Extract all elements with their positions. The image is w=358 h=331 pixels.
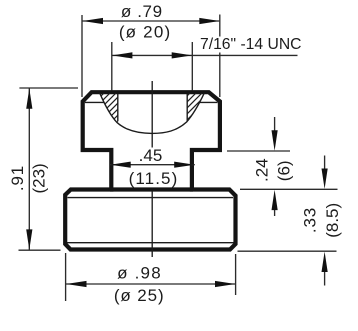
dimension dia .79: dimension line <box>83 20 220 22</box>
svg-text:.33: .33 <box>301 207 320 233</box>
thread callout 7/16: dimension line and leader shelf <box>112 54 298 56</box>
thread minor-diameter line left <box>117 94 119 121</box>
dimension dia .79: arrow left <box>83 18 103 24</box>
top face line left <box>85 101 104 103</box>
dimension dia .98: dimension line <box>66 283 235 285</box>
svg-text:ø .79: ø .79 <box>121 2 163 21</box>
svg-text:(6): (6) <box>275 160 294 181</box>
dimension dia .79: arrow right <box>199 18 219 24</box>
dimension .91: arrow up <box>26 88 32 108</box>
counterbore dish curve <box>100 93 204 133</box>
svg-text:.45: .45 <box>139 146 163 165</box>
dimension .91: dimension line <box>28 88 30 249</box>
dimension .33: reference line bottom <box>238 250 337 252</box>
dimension .24: reference line top <box>227 150 290 152</box>
dimension dia .98: extension line left <box>65 253 67 301</box>
svg-text:7/16" -14 UNC: 7/16" -14 UNC <box>200 36 301 53</box>
top face line right <box>200 101 218 103</box>
dimension .45: arrow left <box>110 162 130 168</box>
dimension dia .98: arrow right <box>215 281 235 287</box>
svg-text:(8.5): (8.5) <box>323 203 342 238</box>
dimension .24: arrow down <box>274 117 276 133</box>
dimension .24: arrow up <box>274 208 276 216</box>
svg-text:ø .98: ø .98 <box>117 264 162 283</box>
vertical centerline (lower segment) <box>151 191 153 257</box>
vertical centerline (upper segment) <box>151 81 153 148</box>
dimension .45: arrow right <box>174 162 194 168</box>
dimension .91: reference line top <box>19 87 78 89</box>
dimension .45: dimension line <box>110 164 195 166</box>
svg-text:.24: .24 <box>253 158 272 182</box>
thread callout 7/16: extension line left <box>111 42 113 91</box>
dimension .91: arrow down <box>26 229 32 249</box>
svg-text:(23): (23) <box>30 163 49 193</box>
thread hatch left <box>75 90 149 122</box>
thread callout 7/16: arrow left <box>112 52 132 58</box>
svg-text:.91: .91 <box>8 165 27 191</box>
dimension .24: reference line bottom (shared) <box>240 188 338 190</box>
dimension .33: arrow up <box>324 272 326 286</box>
part outline (T-nut cross-section, thick) <box>65 92 235 249</box>
svg-text:(11.5): (11.5) <box>129 169 179 188</box>
dimension .33: arrow down <box>324 156 326 171</box>
dimension dia .98: arrow left <box>66 281 86 287</box>
dimension dia .79: extension line left <box>81 15 83 97</box>
thread minor-diameter line right <box>186 94 188 121</box>
dimension dia .98: extension line right <box>235 254 237 295</box>
thread callout 7/16: extension line right <box>191 42 193 91</box>
thread hatch right <box>161 90 223 122</box>
thread callout 7/16: arrow right <box>172 52 192 58</box>
base top edge across neck <box>110 187 193 191</box>
base chamfer ring top <box>68 197 234 199</box>
base chamfer ring bottom <box>67 242 234 244</box>
dimension dia .79: extension line right (above text) <box>219 15 221 37</box>
dimension dia .79: extension line right (below text) <box>219 53 221 98</box>
svg-text:(ø 20): (ø 20) <box>119 22 172 41</box>
svg-text:(ø 25): (ø 25) <box>114 286 165 305</box>
dimension .91: reference line bottom <box>19 249 61 251</box>
